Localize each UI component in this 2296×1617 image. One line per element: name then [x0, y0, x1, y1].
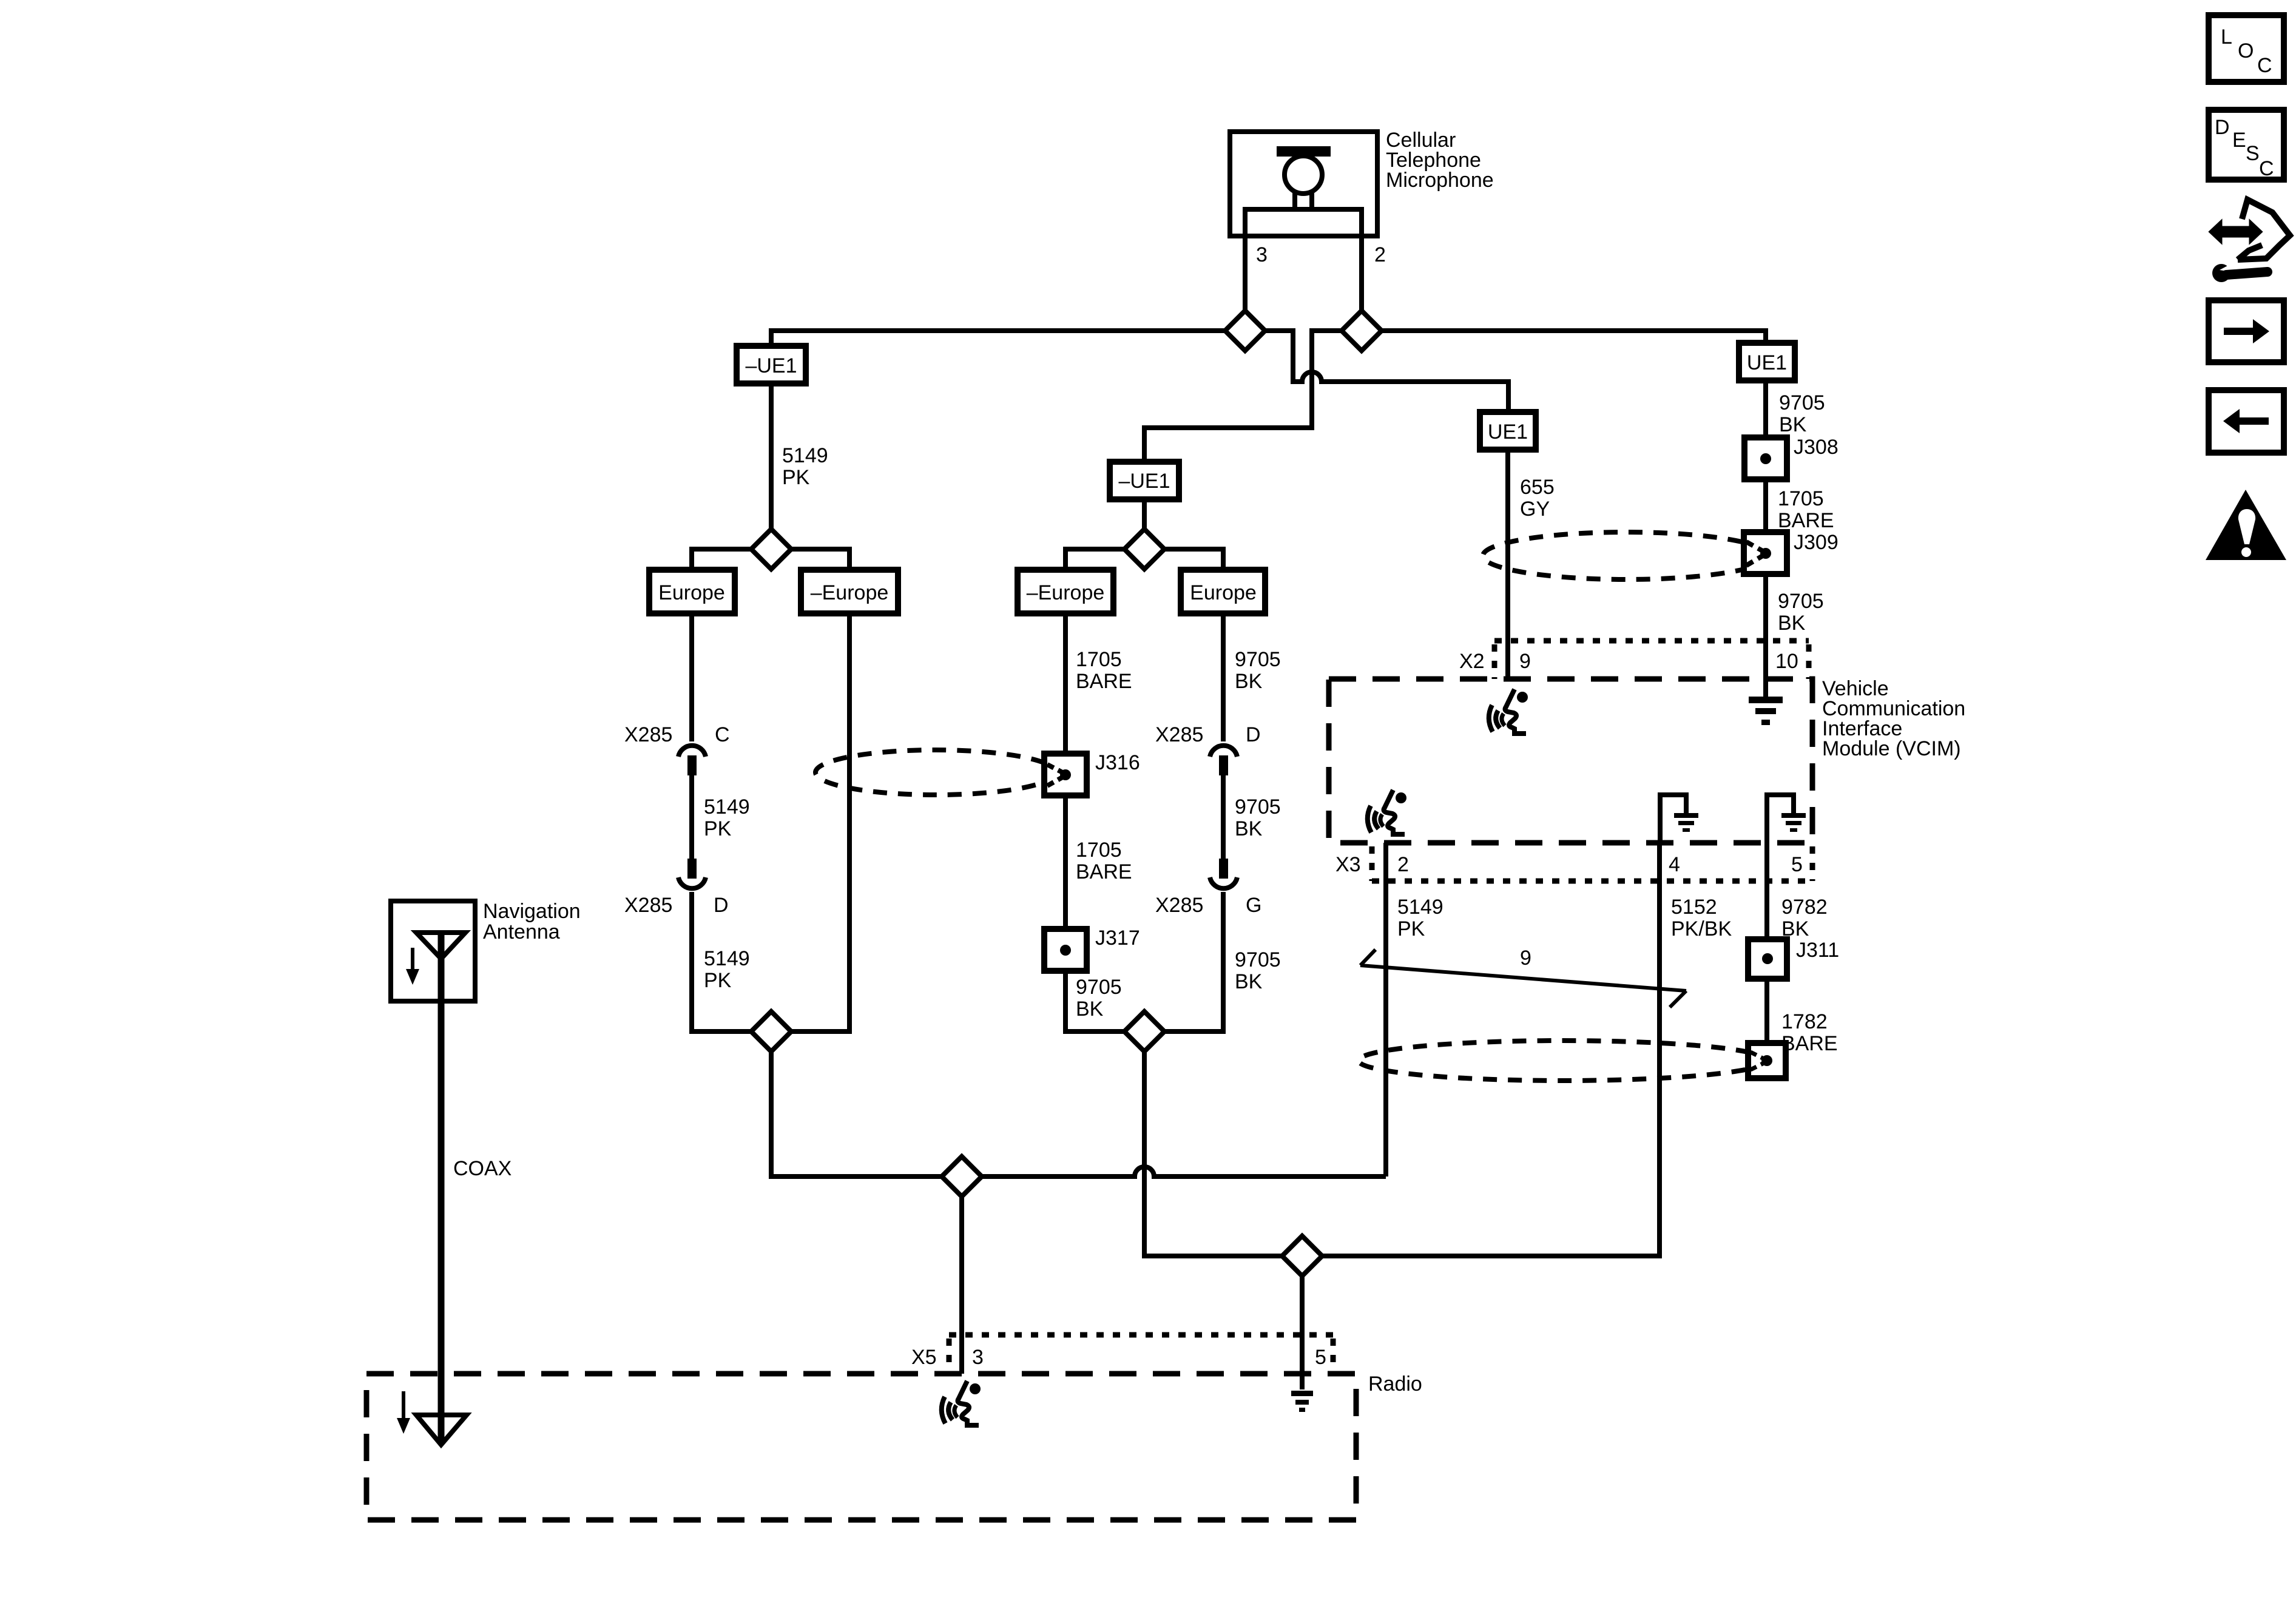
svg-text:5: 5 [1791, 853, 1803, 876]
option box -UE1 middle [1110, 462, 1179, 499]
svg-text:BK: BK [1778, 612, 1806, 635]
svg-text:9: 9 [1519, 650, 1531, 673]
label Navigation Antenna [483, 900, 581, 944]
svg-text:PK/BK: PK/BK [1671, 917, 1732, 940]
svg-text:10: 10 [1775, 650, 1798, 673]
svg-text:C: C [2257, 54, 2272, 77]
wire 5149 PK -UE1 to splice [769, 383, 774, 530]
svg-text:Antenna: Antenna [483, 920, 560, 944]
connector X285 D (left) [678, 859, 706, 888]
svg-text:3: 3 [1256, 243, 1268, 266]
svg-text:–UE1: –UE1 [745, 354, 797, 377]
label Vehicle Communication Interface Module (VCIM) [1822, 677, 1965, 760]
svg-text:9: 9 [1520, 947, 1531, 970]
label X285 D left [624, 894, 729, 917]
svg-text:4: 4 [1669, 853, 1680, 876]
harness routing / wrench icon [2210, 200, 2290, 282]
svg-text:X5: X5 [911, 1346, 937, 1369]
svg-text:1705: 1705 [1076, 839, 1122, 862]
splice diamond radio ground feed [1282, 1236, 1322, 1276]
label 5149 PK lower [704, 947, 750, 992]
wire splice to -Europe box middle [1065, 549, 1124, 570]
svg-text:Microphone: Microphone [1386, 169, 1494, 192]
wire Europe box to X285-C [689, 613, 694, 741]
svg-text:Europe: Europe [1190, 581, 1257, 604]
wire radio run to VCIM X3-2 with hop [981, 1167, 1386, 1176]
splice J308 [1744, 437, 1787, 479]
connector X5 dotted box [949, 1335, 1333, 1374]
DESC icon box [2209, 110, 2284, 180]
wire 5149 PK X3-2 down [1383, 843, 1388, 1176]
svg-text:C: C [715, 723, 730, 746]
splice J317 [1044, 929, 1087, 971]
ground inside VCIM below pin 10 [1749, 697, 1783, 725]
wire 1782 BARE J311 down [1764, 979, 1769, 1043]
svg-text:9705: 9705 [1778, 590, 1824, 613]
svg-text:BK: BK [1779, 413, 1807, 436]
svg-text:O: O [2238, 39, 2254, 62]
connector X285 D (right) [1210, 746, 1237, 775]
label 9782 BK [1781, 896, 1828, 940]
label X285 D right [1155, 723, 1261, 746]
shield ellipse bottom [1359, 1041, 1768, 1081]
label 1705 BARE [1778, 487, 1834, 532]
label 1705 BARE upper [1076, 648, 1132, 693]
microphone base [1245, 209, 1362, 236]
svg-text:X3: X3 [1335, 853, 1361, 876]
option box -Europe (left) [801, 570, 898, 613]
splice diamond below -UE1 middle [1124, 529, 1164, 569]
wire 9705 BK X285-G to merge splice [1164, 892, 1223, 1031]
shield ellipse around 655 GY and J309 [1483, 532, 1769, 579]
shield splice box bottom right [1748, 1043, 1786, 1078]
option box -Europe (middle) [1018, 570, 1113, 613]
cellular telephone microphone box [1230, 132, 1377, 236]
splice diamond radio mic feed [942, 1156, 982, 1197]
svg-text:1782: 1782 [1781, 1010, 1828, 1033]
option box UE1 (right) [1739, 343, 1795, 380]
svg-text:D: D [1246, 723, 1261, 746]
svg-text:J308: J308 [1794, 436, 1838, 459]
radio dashed outline [366, 1374, 1356, 1520]
wire mic pin 2 [1359, 236, 1364, 311]
svg-text:–UE1: –UE1 [1118, 470, 1170, 493]
svg-text:J311: J311 [1796, 939, 1839, 962]
wire -UE1 middle to splice [1142, 499, 1147, 530]
svg-text:9705: 9705 [1779, 391, 1825, 414]
label X285 C [624, 723, 730, 746]
svg-text:BARE: BARE [1076, 670, 1132, 693]
svg-text:Navigation: Navigation [483, 900, 581, 923]
wire left merge down to radio run [771, 1052, 942, 1176]
label 5149 PK [782, 444, 828, 489]
svg-text:UE1: UE1 [1747, 351, 1787, 374]
label 9705 BK left mid [1076, 976, 1122, 1021]
svg-text:X285: X285 [1155, 723, 1203, 746]
svg-text:BARE: BARE [1778, 509, 1834, 532]
wire 9705 BK J309 to VCIM X2-10 [1763, 574, 1768, 697]
option box -UE1 left [737, 346, 806, 383]
svg-text:1705: 1705 [1076, 648, 1122, 671]
wire 9705 BK Europe mid to X285-D [1221, 613, 1226, 741]
svg-text:X285: X285 [624, 723, 672, 746]
LOC icon box [2209, 15, 2284, 82]
svg-text:9705: 9705 [1235, 648, 1281, 671]
wire 655 GY to VCIM X2-9 [1505, 450, 1510, 679]
connector X285 G [1210, 859, 1237, 888]
svg-text:BK: BK [1076, 998, 1104, 1021]
label 9705 BK right mid lower [1235, 948, 1281, 993]
svg-text:3: 3 [972, 1346, 984, 1369]
wire 1705 BARE J308 to J309 [1763, 479, 1768, 532]
svg-text:PK: PK [1397, 917, 1425, 940]
warning triangle icon [2206, 490, 2286, 560]
wire splice down to radio X5-5 [1300, 1276, 1305, 1389]
ground inside radio below pin 5 [1291, 1391, 1313, 1412]
svg-text:Europe: Europe [658, 581, 725, 604]
splice J309 [1744, 532, 1787, 574]
antenna direction arrow [406, 948, 419, 985]
wire -Europe left to merge splice [791, 613, 849, 1031]
label Cellular Telephone Microphone [1386, 129, 1494, 192]
wire middle merge down to ground run [1144, 1052, 1282, 1256]
splice J311 [1748, 939, 1787, 979]
ground hook inside VCIM pin 5 [1767, 795, 1806, 843]
svg-text:2: 2 [1397, 853, 1409, 876]
shield ellipse left [815, 750, 1056, 795]
wire 9782 BK X3-5 to J311 [1764, 843, 1769, 939]
back arrow icon box [2209, 390, 2284, 453]
svg-text:J316: J316 [1095, 751, 1140, 774]
handsfree microphone icon radio [942, 1381, 981, 1425]
svg-text:GY: GY [1520, 498, 1550, 521]
microphone circle [1285, 156, 1322, 194]
svg-text:BK: BK [1235, 670, 1263, 693]
merge splice diamond left pair [751, 1011, 791, 1052]
antenna symbol triangle [416, 933, 465, 959]
svg-text:UE1: UE1 [1488, 420, 1528, 444]
svg-text:BARE: BARE [1076, 860, 1132, 883]
svg-text:1705: 1705 [1778, 487, 1824, 510]
svg-text:–Europe: –Europe [1027, 581, 1105, 604]
wire 1705 BARE -Europe to J316 [1063, 613, 1068, 754]
svg-text:9782: 9782 [1781, 896, 1828, 919]
connector X2 dotted box [1494, 641, 1809, 679]
label 1705 BARE lower [1076, 839, 1132, 883]
label 9705 BK right mid middle [1235, 795, 1281, 840]
svg-text:G: G [1246, 894, 1261, 917]
wire 9705 BK J317 to merge splice [1065, 971, 1124, 1031]
option box Europe (left) [649, 570, 735, 613]
svg-text:C: C [2259, 157, 2274, 180]
splice diamond mic pin 2 [1342, 311, 1382, 351]
connector X3 dotted box [1372, 846, 1812, 881]
svg-text:BARE: BARE [1781, 1032, 1838, 1055]
radio antenna direction arrow [397, 1391, 410, 1434]
svg-text:L: L [2221, 25, 2232, 49]
label 5149 PK at X3 [1397, 896, 1443, 940]
wire splice to Europe box left [692, 549, 751, 570]
option box UE1 (655 branch) [1480, 412, 1536, 450]
svg-text:J317: J317 [1095, 927, 1140, 950]
svg-text:COAX: COAX [453, 1157, 512, 1180]
svg-text:X285: X285 [1155, 894, 1203, 917]
svg-text:X2: X2 [1459, 650, 1485, 673]
wire splice to UE1 655 branch [1264, 331, 1508, 412]
label 9705 BK top right [1779, 391, 1825, 436]
ground hook inside VCIM pin 4 [1660, 795, 1698, 843]
wire 1705 BARE J316 to J317 [1063, 795, 1068, 929]
svg-text:5149: 5149 [704, 947, 750, 970]
forward arrow icon box [2209, 300, 2284, 362]
svg-text:–Europe: –Europe [811, 581, 889, 604]
svg-text:S: S [2246, 142, 2260, 165]
navigation antenna box [391, 901, 475, 1001]
wire mic pin 3 [1243, 236, 1248, 311]
svg-text:D: D [2215, 116, 2230, 139]
splice diamond below -UE1 left [751, 529, 791, 569]
wire 5149 PK X285-D to merge splice [692, 892, 751, 1031]
svg-text:E: E [2232, 129, 2246, 152]
svg-text:9705: 9705 [1076, 976, 1122, 999]
svg-text:2: 2 [1374, 243, 1386, 266]
option box Europe (middle) [1181, 570, 1265, 613]
VCIM module dashed outline [1329, 679, 1812, 843]
handsfree microphone icon VCIM pin 9 [1489, 689, 1528, 734]
svg-text:BK: BK [1235, 817, 1263, 840]
svg-text:655: 655 [1520, 476, 1555, 499]
svg-text:X285: X285 [624, 894, 672, 917]
svg-text:J309: J309 [1794, 531, 1838, 554]
radio antenna input triangle [416, 1415, 467, 1445]
svg-text:5: 5 [1315, 1346, 1326, 1369]
label 1782 BARE [1781, 1010, 1838, 1055]
wire 9705 BK UE1 to J308 [1763, 380, 1768, 437]
label 9705 BK lower [1778, 590, 1824, 635]
wire 5152 PK/BK X3-4 down to splice [1323, 843, 1660, 1256]
svg-text:PK: PK [782, 466, 810, 489]
svg-text:9705: 9705 [1235, 948, 1281, 971]
wire 9705 BK between X285 connectors [1221, 775, 1226, 859]
splice diamond mic pin 3 [1225, 311, 1265, 351]
wire bus left to -UE1 [771, 331, 1226, 346]
wire splice to Europe box middle [1164, 549, 1223, 570]
twisted pair arrow 9 [1360, 950, 1686, 1007]
microphone stem [1295, 192, 1312, 212]
svg-text:5149: 5149 [1397, 896, 1443, 919]
svg-text:5149: 5149 [782, 444, 828, 467]
label 5149 PK mid [704, 795, 750, 840]
wire bus right to UE1 [1381, 331, 1766, 343]
svg-text:BK: BK [1235, 970, 1263, 993]
svg-text:PK: PK [704, 969, 732, 992]
splice J316 [1044, 754, 1087, 795]
label 655 GY [1520, 476, 1555, 521]
svg-text:PK: PK [704, 817, 732, 840]
wire splice to -UE1 mid branch [1144, 331, 1342, 462]
connector X285 C [678, 746, 706, 775]
microphone grille bar [1277, 146, 1331, 157]
label 9705 BK right mid upper [1235, 648, 1281, 693]
svg-text:Module (VCIM): Module (VCIM) [1822, 737, 1961, 760]
svg-text:Radio: Radio [1368, 1372, 1422, 1396]
wire splice down to radio X5-3 [959, 1197, 964, 1374]
merge splice diamond middle pair [1124, 1011, 1164, 1052]
label 5152 PK/BK [1671, 896, 1732, 940]
svg-text:5152: 5152 [1671, 896, 1717, 919]
wire 5149 PK between X285 connectors [689, 775, 694, 859]
svg-text:D: D [714, 894, 729, 917]
wire COAX antenna to radio [438, 933, 445, 1443]
svg-text:9705: 9705 [1235, 795, 1281, 819]
wire splice to -Europe box left pair [791, 549, 849, 570]
label X285 G [1155, 894, 1261, 917]
handsfree microphone icon VCIM X3 [1368, 790, 1406, 834]
svg-text:5149: 5149 [704, 795, 750, 819]
